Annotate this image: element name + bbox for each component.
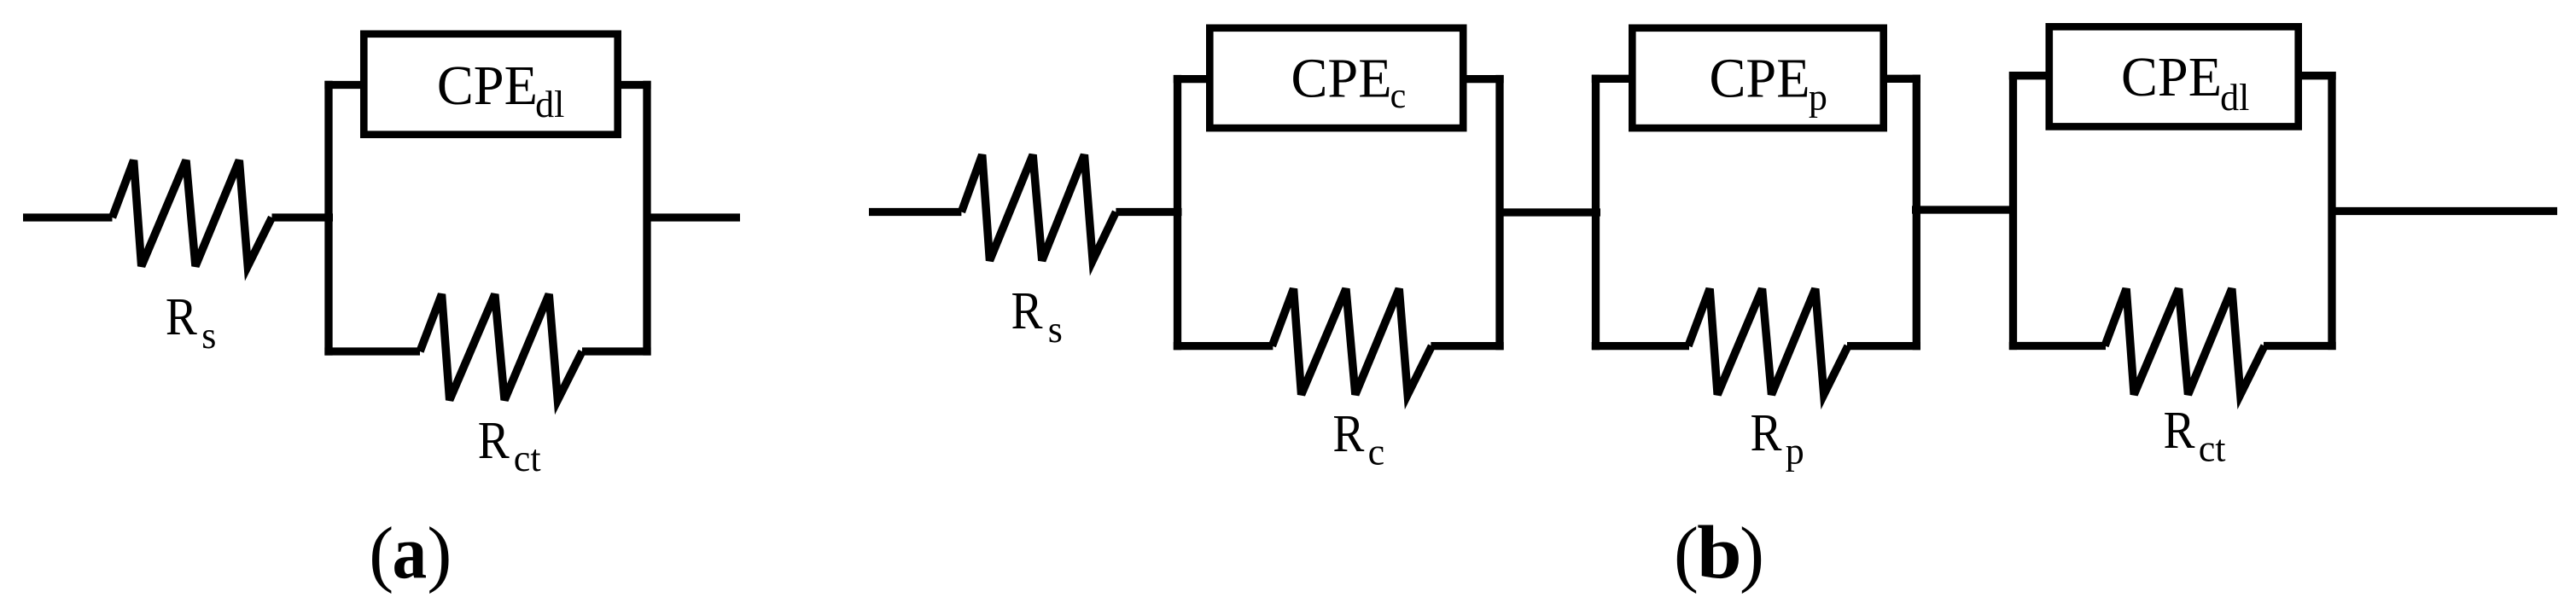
- svg-text:CPE: CPE: [1291, 47, 1392, 109]
- svg-text:): ): [1740, 512, 1764, 594]
- svg-text:CPE: CPE: [2121, 46, 2222, 108]
- svg-text:R: R: [1751, 404, 1783, 462]
- svg-text:R: R: [1011, 282, 1044, 340]
- svg-text:ct: ct: [514, 438, 541, 479]
- svg-text:(: (: [369, 512, 393, 594]
- svg-text:R: R: [478, 412, 510, 470]
- svg-text:ct: ct: [2199, 428, 2226, 470]
- svg-text:CPE: CPE: [437, 55, 538, 117]
- svg-text:s: s: [201, 315, 216, 357]
- svg-text:b: b: [1697, 512, 1742, 595]
- svg-text:c: c: [1390, 77, 1407, 116]
- svg-text:dl: dl: [535, 84, 564, 125]
- svg-text:p: p: [1809, 76, 1827, 118]
- svg-text:p: p: [1786, 431, 1804, 473]
- svg-text:a: a: [393, 512, 428, 595]
- svg-text:dl: dl: [2220, 77, 2249, 119]
- svg-text:): ): [427, 512, 452, 594]
- svg-text:s: s: [1048, 309, 1063, 351]
- svg-text:R: R: [166, 288, 198, 346]
- svg-text:c: c: [1368, 432, 1385, 473]
- svg-text:CPE: CPE: [1710, 47, 1810, 109]
- svg-text:(: (: [1674, 512, 1699, 594]
- svg-text:R: R: [2164, 402, 2196, 460]
- svg-text:R: R: [1332, 405, 1365, 463]
